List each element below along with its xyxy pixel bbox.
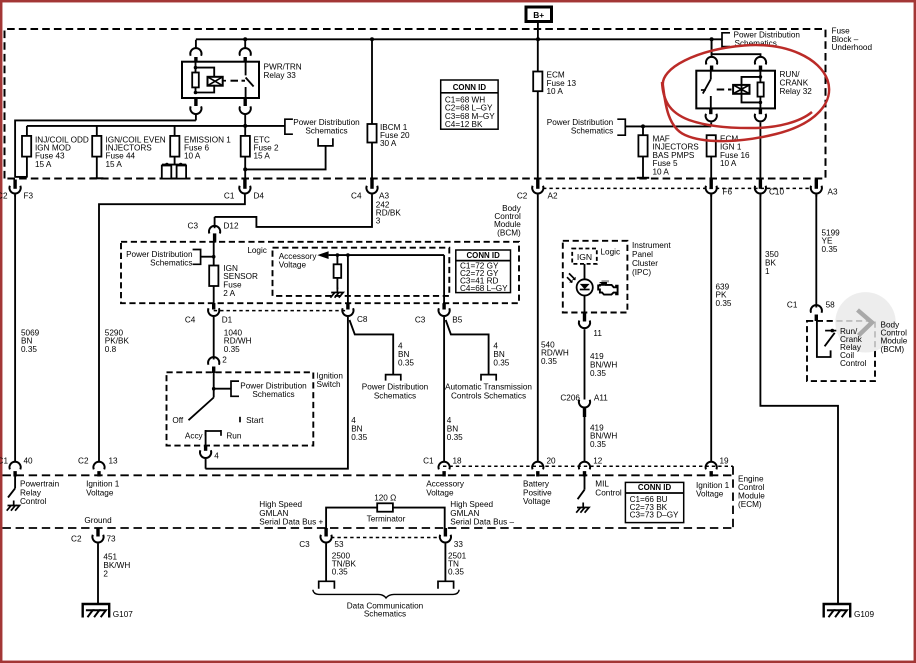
svg-text:Battery: Battery xyxy=(523,480,550,489)
svg-text:Ignition 1: Ignition 1 xyxy=(86,480,120,489)
connector C4/A3 xyxy=(370,180,373,189)
svg-text:Run: Run xyxy=(226,432,241,441)
connector C3/53 xyxy=(324,528,327,537)
svg-text:4: 4 xyxy=(214,451,219,460)
connector C2/73 (ground) xyxy=(96,528,99,537)
svg-text:Control: Control xyxy=(595,488,622,497)
svg-text:1: 1 xyxy=(765,267,770,276)
wire C8 branch to power distribution xyxy=(350,320,394,375)
svg-text:C4=12 BK: C4=12 BK xyxy=(445,120,483,129)
svg-text:40: 40 xyxy=(24,457,34,466)
node bus/IBCM fuse xyxy=(370,37,374,41)
connector 19 xyxy=(706,462,717,470)
relay 33 coil loop xyxy=(196,68,215,93)
svg-text:D1: D1 xyxy=(222,315,233,324)
svg-text:0.35: 0.35 xyxy=(398,358,414,367)
svg-text:Voltage: Voltage xyxy=(426,488,454,497)
bus wire (battery positive) xyxy=(196,38,722,40)
staple: transmission schematics xyxy=(481,375,496,381)
relay RUN/CRANK Relay 32 body xyxy=(696,71,775,109)
connector -/C10 xyxy=(759,180,762,189)
connector C1/D4 xyxy=(243,180,246,189)
wire F6 to ECM ignition 1 voltage xyxy=(710,195,712,462)
connector dotted link D1-C8 xyxy=(214,310,348,312)
module boundary upper xyxy=(3,474,734,476)
connector C206/A11 xyxy=(579,400,590,408)
relay 32 switch xyxy=(710,71,712,80)
svg-text:Control: Control xyxy=(20,497,47,506)
battery feed B+ xyxy=(526,7,552,22)
svg-text:G107: G107 xyxy=(113,610,133,619)
svg-text:73: 73 xyxy=(107,534,117,543)
IPC dashed box xyxy=(563,241,628,313)
fuse F43 INJ/COIL ODD xyxy=(22,136,31,157)
svg-text:10 A: 10 A xyxy=(653,167,670,176)
svg-text:Instrument: Instrument xyxy=(632,241,671,250)
bracket: bus to power distribution schematics xyxy=(722,33,730,47)
staple: power distribution xyxy=(386,375,401,381)
svg-text:53: 53 xyxy=(334,540,344,549)
wire bracket to ign sensor fuse xyxy=(201,256,214,258)
wire F3 to powertrain relay control xyxy=(14,195,16,462)
relay 32 coil xyxy=(759,71,761,109)
svg-text:11: 11 xyxy=(593,329,602,338)
svg-text:C1: C1 xyxy=(787,301,798,310)
svg-text:Schematics: Schematics xyxy=(150,258,192,267)
connector C4/D1 xyxy=(212,303,215,310)
svg-text:High Speed: High Speed xyxy=(450,500,493,509)
wire A3 to BCM run/crank coil control xyxy=(815,195,817,308)
svg-text:F3: F3 xyxy=(24,191,34,200)
emission terminal boxes xyxy=(162,166,172,179)
svg-text:Relay 32: Relay 32 xyxy=(780,87,813,96)
svg-text:Off: Off xyxy=(172,416,183,425)
svg-text:MIL: MIL xyxy=(595,480,609,489)
svg-text:C2: C2 xyxy=(71,534,82,543)
svg-text:Schematics: Schematics xyxy=(571,127,613,136)
indicator LED xyxy=(577,279,593,295)
staple continuation symbol xyxy=(318,138,333,146)
svg-text:0.35: 0.35 xyxy=(590,369,606,378)
svg-text:Serial Data Bus –: Serial Data Bus – xyxy=(450,518,514,527)
underbrace xyxy=(313,590,459,598)
svg-text:CONN ID: CONN ID xyxy=(638,483,672,492)
svg-text:3: 3 xyxy=(376,217,381,226)
wire fuse43 output join xyxy=(15,176,28,178)
svg-text:10 A: 10 A xyxy=(547,87,564,96)
svg-text:10 A: 10 A xyxy=(184,152,201,161)
svg-text:Voltage: Voltage xyxy=(86,488,114,497)
svg-text:Accessory: Accessory xyxy=(426,480,465,489)
svg-text:0.35: 0.35 xyxy=(21,345,37,354)
BCM pull-down resistor xyxy=(336,255,338,264)
connector C2/A2 xyxy=(536,180,539,189)
svg-text:Start: Start xyxy=(246,416,264,425)
svg-text:(BCM): (BCM) xyxy=(881,345,905,354)
svg-text:0.35: 0.35 xyxy=(493,358,509,367)
start contact xyxy=(239,417,241,423)
svg-text:Power Distribution: Power Distribution xyxy=(293,118,360,127)
wire to fuse 6 xyxy=(174,126,176,136)
fuse block underhood outline xyxy=(5,29,826,179)
node bus/B+ xyxy=(536,37,540,41)
svg-text:GMLAN: GMLAN xyxy=(450,509,479,518)
svg-text:0.35: 0.35 xyxy=(332,568,348,577)
svg-text:C10: C10 xyxy=(769,188,784,197)
wire C10 to G109 xyxy=(760,195,838,605)
wire B5 branch to transmission schematics xyxy=(446,320,489,375)
red ellipse overlap stroke xyxy=(662,82,812,128)
svg-text:Accy: Accy xyxy=(185,432,204,441)
relay 33 coil xyxy=(195,62,197,93)
svg-text:C4: C4 xyxy=(185,315,196,324)
ground (BCM internal) xyxy=(336,288,338,293)
svg-text:20: 20 xyxy=(547,457,557,466)
svg-text:Logic: Logic xyxy=(601,247,621,256)
svg-text:0.35: 0.35 xyxy=(541,357,557,366)
connector link dotted xyxy=(331,537,440,539)
svg-text:Ignition 1: Ignition 1 xyxy=(696,481,730,490)
BCM outer dashed box xyxy=(121,242,519,303)
svg-text:Logic: Logic xyxy=(247,246,267,255)
svg-text:0.35: 0.35 xyxy=(590,440,606,449)
svg-text:0.35: 0.35 xyxy=(716,299,732,308)
connector id table (BCM) xyxy=(456,250,511,293)
svg-text:B+: B+ xyxy=(533,10,544,20)
wire bus branch to relay32 pin 30 xyxy=(712,40,761,57)
svg-text:GMLAN: GMLAN xyxy=(259,509,288,518)
LED arrows xyxy=(567,273,575,282)
connector id table (fuse block) xyxy=(441,80,498,129)
connector C1/40 xyxy=(9,462,20,470)
svg-text:A3: A3 xyxy=(379,191,389,200)
connector 11 xyxy=(583,313,586,322)
svg-text:15 A: 15 A xyxy=(106,160,123,169)
svg-text:C3: C3 xyxy=(188,222,199,231)
svg-text:0.35: 0.35 xyxy=(224,345,240,354)
bracket: from power distribution schematics xyxy=(617,119,625,135)
ground G109 xyxy=(824,604,851,618)
svg-text:D4: D4 xyxy=(254,191,265,200)
svg-text:C3=73 D–GY: C3=73 D–GY xyxy=(630,510,679,519)
ground G107 xyxy=(83,604,110,618)
svg-text:Switch: Switch xyxy=(317,380,342,389)
wire ignition input xyxy=(213,372,215,397)
svg-text:Underhood: Underhood xyxy=(832,43,873,52)
BCM run/crank coil control dashed box xyxy=(807,321,875,381)
svg-text:C2: C2 xyxy=(78,457,89,466)
svg-text:15 A: 15 A xyxy=(254,152,271,161)
connector row dotted line (underhood) xyxy=(543,187,812,189)
wire A2 to battery positive voltage xyxy=(537,197,539,462)
ECM right dashed edge xyxy=(732,466,734,528)
connector -/F6 xyxy=(710,180,713,189)
svg-text:Powertrain: Powertrain xyxy=(20,480,60,489)
connector C1/58 xyxy=(811,305,822,313)
relay K32 bottom connectors xyxy=(709,108,712,114)
svg-text:Control: Control xyxy=(840,359,867,368)
wire bus to IBCM fuse xyxy=(371,40,373,124)
svg-text:2: 2 xyxy=(222,356,227,365)
svg-text:(ECM): (ECM) xyxy=(738,500,762,509)
ECM dotted top xyxy=(443,465,733,467)
coil control driver xyxy=(817,321,831,357)
connector 2 (ignition switch) xyxy=(213,359,215,360)
svg-text:13: 13 xyxy=(109,457,119,466)
svg-text:C3: C3 xyxy=(299,540,310,549)
emission output bar xyxy=(162,164,186,166)
relay 32 actuation dashes xyxy=(717,89,725,91)
svg-text:Panel: Panel xyxy=(632,250,653,259)
svg-text:Voltage: Voltage xyxy=(696,490,724,499)
svg-text:Ground: Ground xyxy=(84,516,112,525)
relay PWR/TRN Relay 33 body xyxy=(182,62,259,98)
fuse F44 IGN/COIL EVEN xyxy=(92,136,101,157)
relay K33 pin 86 top connector xyxy=(195,40,197,48)
MIL driver xyxy=(584,477,586,490)
svg-text:Cluster: Cluster xyxy=(632,259,658,268)
relay K32 top connectors xyxy=(711,40,713,57)
bracket: power distribution schematics (ign sensor) xyxy=(193,250,201,265)
svg-text:C2: C2 xyxy=(517,191,528,200)
connector 33 xyxy=(444,528,447,537)
fuse IGN SENSOR 2A xyxy=(213,243,215,266)
svg-text:CONN ID: CONN ID xyxy=(453,83,487,92)
fuse F2 ETC xyxy=(244,126,246,136)
connector C3/B5 xyxy=(442,303,445,309)
svg-text:Relay 33: Relay 33 xyxy=(264,71,297,80)
svg-text:C2: C2 xyxy=(0,191,8,200)
svg-text:Schematics: Schematics xyxy=(252,390,294,399)
svg-text:C206: C206 xyxy=(560,394,580,403)
fuse F16 ECM IGN 1 xyxy=(707,135,716,156)
red highlight ellipse (annotation) xyxy=(663,45,829,141)
connector C8 xyxy=(346,303,349,309)
svg-text:18: 18 xyxy=(453,457,463,466)
svg-text:C1: C1 xyxy=(423,457,434,466)
svg-text:Schematics: Schematics xyxy=(374,391,416,400)
MIL engine icon xyxy=(602,280,610,282)
svg-text:120 Ω: 120 Ω xyxy=(374,494,396,503)
svg-text:19: 19 xyxy=(720,457,730,466)
node bus/relay32 xyxy=(710,37,714,41)
wire accy-run link xyxy=(206,431,221,446)
wire ETC branch to schematic continuation xyxy=(245,146,325,170)
svg-text:Voltage: Voltage xyxy=(279,261,307,270)
module boundary lower xyxy=(3,527,734,529)
svg-text:30 A: 30 A xyxy=(380,139,397,148)
terminator resistor xyxy=(377,503,393,511)
svg-text:IGN: IGN xyxy=(577,252,592,262)
connector C2/F3 xyxy=(13,180,16,189)
connector 4 (ignition output) xyxy=(204,446,207,451)
svg-text:Terminator: Terminator xyxy=(367,514,406,523)
gray watermark circle xyxy=(835,292,895,352)
wire to fuse 43 xyxy=(26,126,28,136)
connector C2/13 xyxy=(93,462,104,470)
wire to bracket xyxy=(214,388,231,390)
bracket: power distribution schematics (ignition) xyxy=(231,381,239,396)
fuse F20 IBCM 1 xyxy=(367,124,376,143)
svg-text:C4=68 L–GY: C4=68 L–GY xyxy=(460,284,508,293)
relay K33 pin 87 bottom connector xyxy=(243,98,246,106)
svg-text:0.35: 0.35 xyxy=(447,433,463,442)
relay 33 actuation dashes xyxy=(231,80,239,82)
svg-text:G109: G109 xyxy=(854,610,874,619)
wire A3 to BCM D12 xyxy=(215,197,372,227)
connector 20 xyxy=(532,462,543,470)
wire B+ down to bus xyxy=(537,22,539,41)
svg-text:B5: B5 xyxy=(452,315,462,324)
fuse F5 MAF INJECTORS BAS PMPS xyxy=(642,126,644,135)
wire C8 to ignition switch feed xyxy=(205,317,348,469)
svg-text:F6: F6 xyxy=(723,188,733,197)
svg-text:12: 12 xyxy=(593,457,603,466)
svg-text:Positive: Positive xyxy=(523,488,552,497)
wire accessory to B5 xyxy=(443,255,445,307)
node bus/relay33 right xyxy=(243,37,247,41)
svg-text:A2: A2 xyxy=(548,191,558,200)
relay 32 coil loop xyxy=(742,77,761,103)
svg-text:A11: A11 xyxy=(594,394,608,403)
svg-text:A3: A3 xyxy=(828,188,838,197)
svg-text:CONN ID: CONN ID xyxy=(466,251,500,260)
relay K33 pin 30 top connector xyxy=(244,40,246,48)
svg-text:2 A: 2 A xyxy=(223,289,235,298)
svg-text:Schematics: Schematics xyxy=(305,127,347,136)
wire indicator to pin 11 xyxy=(584,296,586,313)
connector C1/18 xyxy=(438,462,449,470)
connector id table (ECM) xyxy=(625,482,683,522)
svg-text:58: 58 xyxy=(826,301,836,310)
accy contact xyxy=(205,430,207,436)
wire accessory voltage xyxy=(329,254,445,256)
wire bus to ECM fuse 13 xyxy=(537,40,539,72)
svg-text:C3: C3 xyxy=(415,315,426,324)
terminator loop xyxy=(326,508,377,528)
svg-text:2: 2 xyxy=(103,570,108,579)
fuse F13 ECM xyxy=(533,72,542,92)
wire B5 to accessory voltage (ECM C1/18) xyxy=(443,317,445,462)
powertrain relay control driver xyxy=(14,477,16,489)
wire D4 to ignition1 voltage xyxy=(99,197,245,462)
fuse F6 EMISSION 1 xyxy=(170,136,179,157)
wire to fuse 44 xyxy=(96,126,98,136)
svg-text:Voltage: Voltage xyxy=(523,497,551,506)
connector -/A3 xyxy=(815,180,818,189)
svg-text:Controls Schematics: Controls Schematics xyxy=(451,391,526,400)
svg-text:0.8: 0.8 xyxy=(105,345,117,354)
svg-text:Schematics: Schematics xyxy=(364,609,406,618)
ignition switch blade xyxy=(189,398,214,421)
svg-text:(IPC): (IPC) xyxy=(632,268,651,277)
wire IGN to indicator xyxy=(584,264,586,280)
wire relay33 output feed xyxy=(27,125,285,127)
relay 32 solenoid symbol xyxy=(733,85,749,94)
svg-text:D12: D12 xyxy=(224,222,239,231)
IGN dashed box xyxy=(572,249,597,264)
svg-text:0.35: 0.35 xyxy=(822,245,838,254)
relay 33 solenoid symbol xyxy=(208,77,223,86)
staple: data schematics left xyxy=(319,581,335,589)
svg-text:(BCM): (BCM) xyxy=(497,228,521,237)
accessory voltage arrow xyxy=(317,251,328,259)
svg-text:C8: C8 xyxy=(357,315,368,324)
relay 33 switch xyxy=(245,62,247,76)
svg-text:0.35: 0.35 xyxy=(448,568,464,577)
svg-text:Relay: Relay xyxy=(20,488,42,497)
staple: data schematics right xyxy=(438,581,454,589)
relay K33 pin 85 bottom connector xyxy=(194,98,197,106)
svg-text:High Speed: High Speed xyxy=(259,500,302,509)
connector C3/D12 xyxy=(214,217,216,228)
svg-text:10 A: 10 A xyxy=(720,159,737,168)
svg-text:C1: C1 xyxy=(224,191,235,200)
wire schematics feed to ECM IGN1 xyxy=(625,125,711,127)
wire accessory to C8 xyxy=(347,255,349,307)
svg-text:15 A: 15 A xyxy=(35,160,52,169)
connector 12 xyxy=(579,462,590,470)
svg-text:C1: C1 xyxy=(0,457,8,466)
wire relay33 coil return to F3 xyxy=(15,120,196,177)
bracket: feed to power distribution schematics xyxy=(285,119,293,134)
svg-text:C4: C4 xyxy=(351,191,362,200)
BCM logic inner dashed box xyxy=(273,248,450,296)
svg-text:Serial Data Bus +: Serial Data Bus + xyxy=(259,518,323,527)
svg-text:33: 33 xyxy=(454,540,464,549)
run contact xyxy=(220,430,222,436)
ignition switch dashed box xyxy=(167,372,314,445)
svg-text:0.35: 0.35 xyxy=(351,433,367,442)
